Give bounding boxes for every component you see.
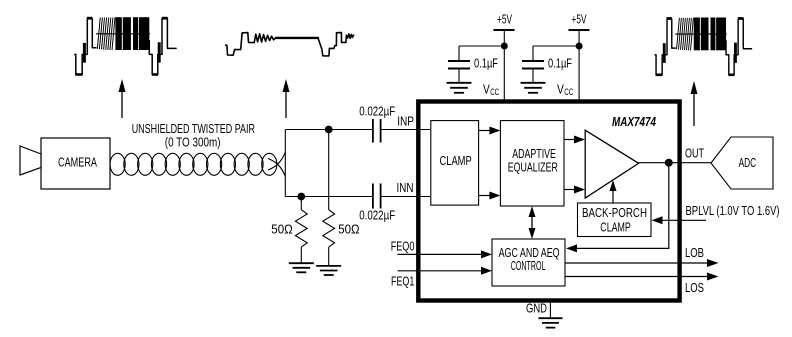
node: junction on INN net <box>297 193 305 201</box>
wire: cable splitter vertical <box>284 130 286 197</box>
wire: buffer output to OUT pin and ADC <box>639 162 711 164</box>
svg-text:CC: CC <box>490 87 499 98</box>
arrow: up arrow from cable start to waveform 1 <box>119 79 126 118</box>
ground (right bypass cap) <box>521 83 546 93</box>
wire: INP net from splitter to coupling cap <box>285 129 372 131</box>
svg-text:V: V <box>483 81 490 96</box>
svg-text:FEQ0: FEQ0 <box>391 239 415 254</box>
waveform: original camera signal (top left) <box>74 17 177 74</box>
svg-text:CONTROL: CONTROL <box>511 258 546 273</box>
pin label VCC (left) <box>483 81 499 98</box>
wire: INP junction down to right resistor (crosses INN) <box>328 130 330 210</box>
svg-text:CC: CC <box>564 87 573 98</box>
adaptive equalizer block <box>500 121 564 206</box>
svg-text:EQUALIZER: EQUALIZER <box>508 159 558 174</box>
waveform: equalized output signal (top right) <box>655 18 753 75</box>
svg-text:+5V: +5V <box>497 12 512 27</box>
clamp block CLAMP <box>431 121 479 206</box>
back-porch clamp block <box>578 203 652 237</box>
wire: FEQ1 input with arrow into AGC <box>398 267 493 275</box>
power +5V (left) <box>494 12 515 102</box>
wire: FEQ0 input with arrow into AGC <box>398 250 493 258</box>
ground (left bypass cap) <box>447 83 472 93</box>
wire: back-porch clamp to buffer with up arrow <box>610 180 617 203</box>
wire: VCC2 junction to bypass cap <box>533 45 579 47</box>
svg-text:V: V <box>557 81 564 96</box>
svg-text:LOB: LOB <box>685 245 704 260</box>
node: VCC2 junction <box>576 43 583 50</box>
wire: cap to INP pin <box>382 129 431 131</box>
wire: LOB output with arrow <box>565 259 719 267</box>
node: junction on INP net <box>325 126 333 134</box>
svg-text:(0 TO 300m): (0 TO 300m) <box>165 134 221 149</box>
ground (left resistor) <box>289 263 314 272</box>
agc and aeq control block <box>492 239 565 286</box>
svg-text:GND: GND <box>526 300 547 315</box>
svg-text:INN: INN <box>397 180 414 195</box>
wire: LOS output with arrow <box>565 273 719 281</box>
wire: CLAMP to AEQ (bottom) with arrow <box>479 192 501 200</box>
wire: OUT feedback down and into AGC with arrow <box>566 163 669 253</box>
svg-text:OUT: OUT <box>685 146 704 161</box>
ground (right resistor) <box>316 266 341 275</box>
power +5V (right) <box>569 12 590 102</box>
svg-text:0.1µF: 0.1µF <box>548 56 572 71</box>
wire: AEQ to buffer (bottom) with arrow <box>564 186 585 194</box>
wire: GND pin <box>549 300 551 318</box>
camera CAMERA <box>20 138 110 189</box>
node: OUT junction <box>665 159 673 167</box>
ground (GND pin) <box>539 318 563 327</box>
arrow: up arrow from OUT to waveform 3 <box>691 81 698 126</box>
svg-text:INP: INP <box>397 113 414 128</box>
capacitor 0.022uF (INP) <box>359 103 395 142</box>
capacitor 0.022uF (INN) <box>359 184 395 223</box>
waveform: attenuated signal after cable (top middle) <box>226 33 354 56</box>
svg-text:ADC: ADC <box>739 155 757 170</box>
wire: INN net from splitter to coupling cap <box>285 196 372 198</box>
svg-text:CAMERA: CAMERA <box>58 154 97 169</box>
svg-text:50Ω: 50Ω <box>338 222 360 237</box>
svg-text:CLAMP: CLAMP <box>600 220 631 235</box>
svg-text:50Ω: 50Ω <box>271 222 293 237</box>
svg-text:0.1µF: 0.1µF <box>474 56 498 71</box>
wire: cap to INN pin <box>382 196 431 198</box>
wire: VCC1 junction to bypass cap <box>459 45 504 47</box>
wire: BPLVL into back-porch clamp with arrow <box>652 216 707 224</box>
label: UNSHIELDED TWISTED PAIR (0 TO 300m) <box>132 121 255 149</box>
pin label VCC (right) <box>557 81 573 98</box>
wire: AEQ-AGC double-headed arrow <box>529 206 536 239</box>
resistor 50ohm (right, on INP net) <box>323 210 360 266</box>
svg-text:BPLVL (1.0V TO 1.6V): BPLVL (1.0V TO 1.6V) <box>686 203 780 218</box>
IC U1 MAX7474 outline <box>418 102 679 301</box>
adc ADC block <box>711 137 773 189</box>
wire: CLAMP to AEQ (top) with arrow <box>479 127 501 135</box>
svg-text:FEQ1: FEQ1 <box>391 274 414 289</box>
wire: AEQ to buffer (top) with arrow <box>564 136 585 144</box>
capacitor 0.1uF (right bypass) <box>522 46 572 83</box>
op-amp output buffer triangle <box>585 130 638 198</box>
node: VCC1 junction <box>501 43 508 50</box>
svg-text:LOS: LOS <box>685 280 704 295</box>
svg-text:BACK-PORCH: BACK-PORCH <box>582 205 647 220</box>
svg-text:0.022µF: 0.022µF <box>359 207 395 222</box>
svg-text:0.022µF: 0.022µF <box>359 103 395 118</box>
capacitor 0.1uF (left bypass) <box>448 46 498 83</box>
twisted pair cable coil <box>110 152 285 177</box>
svg-text:MAX7474: MAX7474 <box>612 114 657 129</box>
arrow: up arrow from cable end to waveform 2 <box>283 79 290 118</box>
svg-text:CLAMP: CLAMP <box>440 153 472 168</box>
resistor 50ohm (left, on INN net) <box>271 197 307 264</box>
svg-text:+5V: +5V <box>572 12 587 27</box>
